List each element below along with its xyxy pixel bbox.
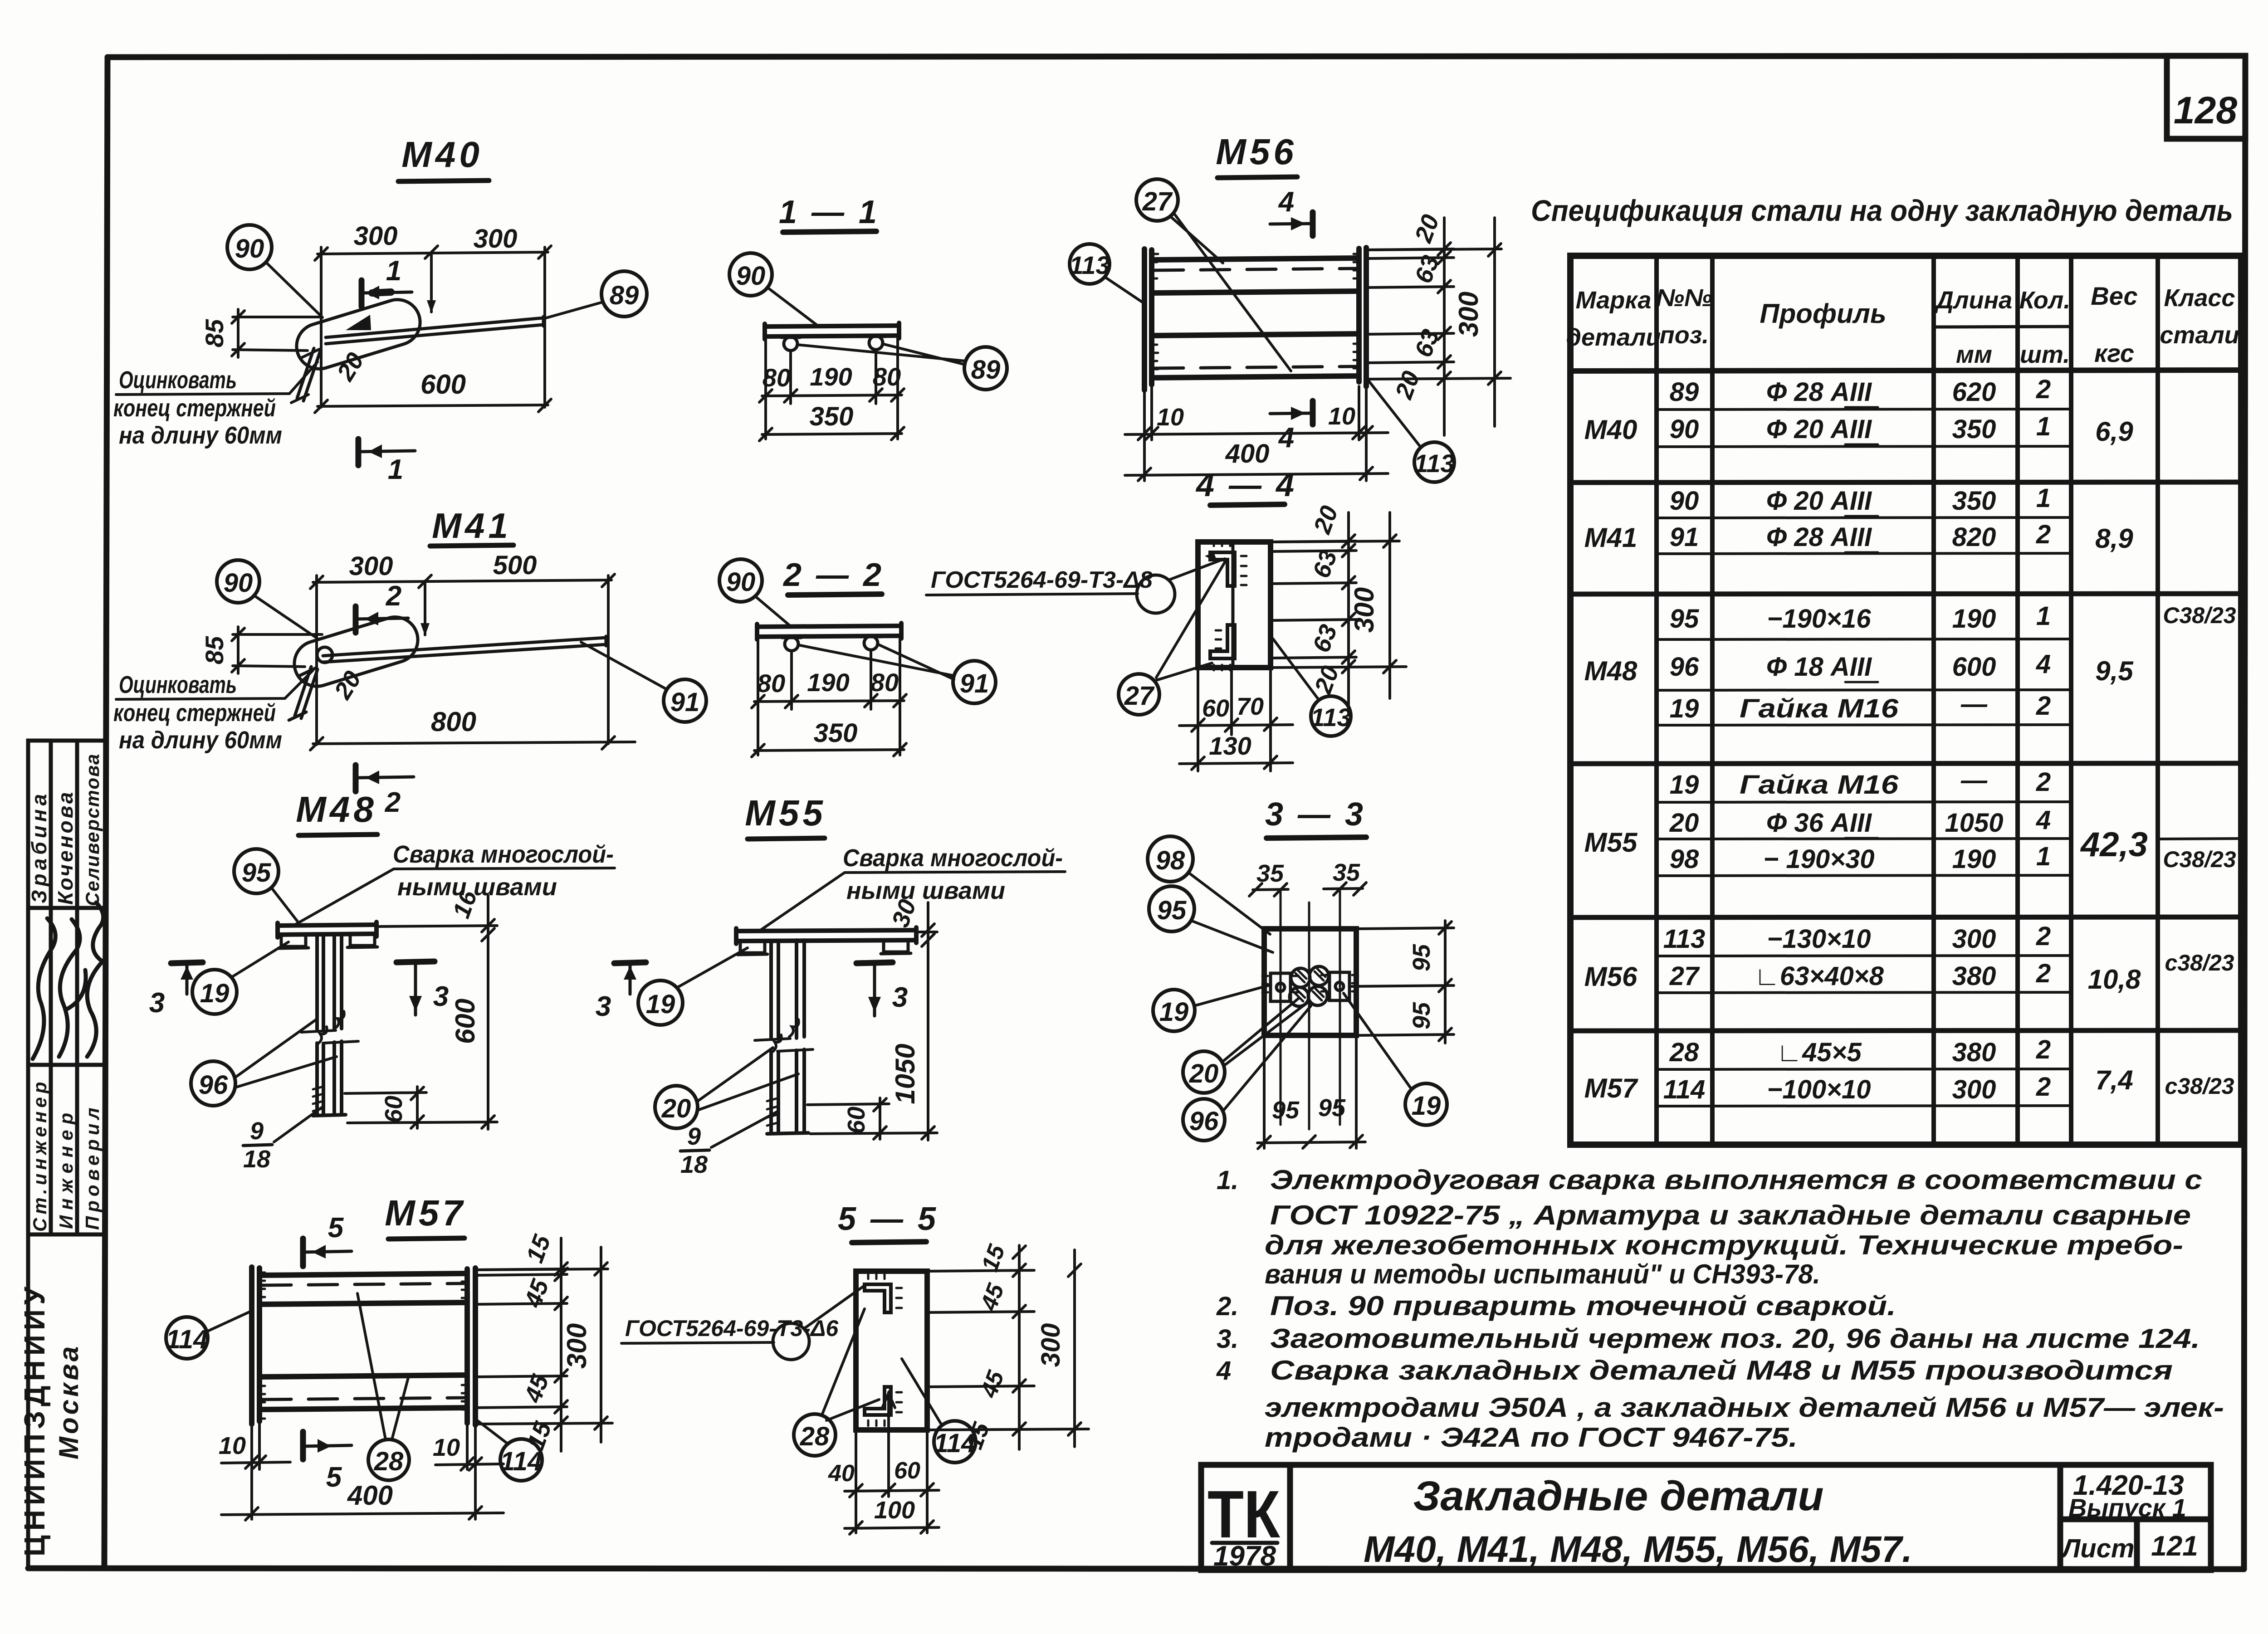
svg-text:Сварка многослой-: Сварка многослой- <box>843 844 1063 872</box>
svg-text:Ф 28 АIII: Ф 28 АIII <box>1766 377 1872 407</box>
svg-text:90: 90 <box>726 567 756 597</box>
svg-text:89: 89 <box>971 355 1001 385</box>
M56 bottom dim 400 <box>1125 467 1388 481</box>
M57 dim 300 <box>475 1247 608 1442</box>
section 5-5 GOST underline <box>621 1342 774 1343</box>
svg-text:Поз. 90 приварить точечной: Поз. 90 приварить точечной сваркой. <box>1270 1291 1896 1321</box>
section 1-1 callout circle 90 <box>729 253 772 296</box>
M57 callout circle 114 left <box>166 1317 208 1359</box>
svg-text:М41: М41 <box>1584 522 1637 553</box>
stamp signature 3 <box>87 902 103 1057</box>
M56 leader 113 right <box>1368 380 1421 447</box>
svg-text:85: 85 <box>200 636 229 664</box>
svg-text:1.: 1. <box>1217 1166 1238 1195</box>
svg-text:Оцинковать: Оцинковать <box>119 366 237 394</box>
svg-text:380: 380 <box>1952 961 1996 991</box>
section 5-5 callout circle 28 <box>794 1414 836 1456</box>
svg-text:27: 27 <box>1669 961 1700 991</box>
svg-text:95: 95 <box>1670 604 1699 634</box>
M40 section mark 1 bottom <box>358 439 415 465</box>
svg-text:Ф 20 АIII: Ф 20 АIII <box>1766 486 1872 516</box>
svg-text:Москва: Москва <box>54 1344 84 1459</box>
svg-text:М56: М56 <box>1584 961 1637 992</box>
section 4-4 plate outline <box>1198 542 1271 668</box>
M57 callout circle 114 right <box>500 1439 542 1481</box>
section 2-2 dim 80 190 80 <box>752 639 906 755</box>
section 1-1 callout circle 89 <box>964 347 1007 390</box>
section 4-4 callout circle 113 <box>1310 696 1351 736</box>
M57 right dim ladder 15 45 45 15 <box>475 1238 612 1451</box>
svg-text:2: 2 <box>2036 959 2051 988</box>
svg-text:Длина: Длина <box>1934 287 2012 314</box>
section 2-2 underline <box>788 594 882 595</box>
M55 dim 60 <box>807 1098 937 1139</box>
table row M48-96 <box>1670 649 2051 682</box>
svg-text:М55: М55 <box>1584 827 1638 858</box>
svg-text:М41: М41 <box>432 506 512 546</box>
svg-text:300: 300 <box>562 1323 592 1369</box>
svg-text:98: 98 <box>1670 844 1699 874</box>
svg-text:5: 5 <box>326 1462 342 1493</box>
svg-text:600: 600 <box>450 999 480 1044</box>
svg-text:Закладные детали: Закладные детали <box>1413 1473 1824 1519</box>
svg-text:М57: М57 <box>385 1193 466 1233</box>
M55 bolt thread ticks <box>767 1098 777 1126</box>
M48 dim 600 <box>482 896 494 1129</box>
svg-text:42,3: 42,3 <box>2080 825 2148 864</box>
M57 section mark 5 top <box>303 1239 352 1266</box>
M40 title underline <box>398 180 489 181</box>
svg-text:35: 35 <box>1333 859 1360 886</box>
section 3-3 washer left <box>1262 973 1299 1001</box>
M55 dim 30 <box>916 924 937 946</box>
M55 section mark 3 left <box>614 962 646 994</box>
M57 section mark 5 bottom <box>303 1432 352 1459</box>
svg-text:96: 96 <box>1189 1107 1219 1136</box>
svg-text:300: 300 <box>354 221 398 251</box>
M41 callout circle 90 <box>217 560 259 603</box>
svg-text:600: 600 <box>420 369 466 400</box>
M48 dim 16 <box>376 919 497 941</box>
spec table row lines <box>1657 409 2241 1106</box>
M56 section mark 4 bottom <box>1270 401 1313 424</box>
M57 leader 114 left <box>207 1311 252 1332</box>
section 1-1 bolt washers <box>781 336 885 351</box>
svg-text:кгс: кгс <box>2094 339 2134 367</box>
svg-text:20: 20 <box>1669 808 1699 838</box>
section 3-3 leader 96 <box>1223 1006 1311 1111</box>
svg-text:−100×10: −100×10 <box>1767 1075 1871 1104</box>
svg-text:1: 1 <box>386 255 401 287</box>
section 3-3 callout circle 19 right <box>1405 1083 1447 1125</box>
svg-text:7,4: 7,4 <box>2095 1065 2133 1095</box>
M41 callout circle 91 <box>664 679 706 722</box>
section 4-4 underline <box>1210 504 1285 505</box>
svg-text:300: 300 <box>474 224 518 254</box>
svg-text:90: 90 <box>1670 415 1699 444</box>
svg-text:96: 96 <box>199 1070 228 1100</box>
M41 note underline <box>116 670 313 699</box>
svg-text:М57: М57 <box>1584 1073 1638 1103</box>
M48 leader 95 <box>271 888 299 924</box>
svg-text:91: 91 <box>670 688 700 717</box>
svg-text:113: 113 <box>1310 703 1351 732</box>
svg-text:35: 35 <box>1256 860 1284 887</box>
M57 callout circle 28 <box>368 1439 409 1480</box>
section 3-3 callout circle 96 <box>1183 1099 1225 1141</box>
svg-text:3: 3 <box>892 982 908 1013</box>
svg-text:190: 190 <box>1952 844 1996 874</box>
svg-text:113: 113 <box>1069 251 1110 279</box>
M48 leader 19 <box>231 942 288 977</box>
svg-text:190: 190 <box>1952 604 1996 634</box>
svg-text:вания и методы испытаний": вания и методы испытаний" и СН393-78. <box>1265 1259 1820 1289</box>
svg-text:—: — <box>1960 689 1988 719</box>
svg-text:Ст.инженер: Ст.инженер <box>29 1078 50 1232</box>
svg-text:90: 90 <box>1670 486 1699 516</box>
svg-text:300: 300 <box>1952 1075 1996 1104</box>
M57 bottom dim 400 <box>221 1507 503 1520</box>
M48 anchor bolts 96 <box>313 934 346 1116</box>
M48 callout circle 95 <box>234 849 279 893</box>
M48 bolt break marks <box>301 1011 358 1044</box>
svg-text:89: 89 <box>610 281 639 310</box>
svg-text:М55: М55 <box>745 793 826 833</box>
M40 weld triangle <box>346 315 371 330</box>
svg-text:91: 91 <box>1670 522 1699 552</box>
M55 weld note leader <box>761 872 1065 930</box>
svg-text:19: 19 <box>1670 770 1699 800</box>
section 5-5 weld ref circle <box>773 1323 809 1360</box>
M48 weld note leader <box>296 868 615 924</box>
section 3-3 underline <box>1266 837 1366 838</box>
section 3-3 leader 19 left <box>1194 985 1270 1006</box>
M41 section mark 2 top <box>356 606 408 633</box>
svg-text:2: 2 <box>2036 1035 2051 1064</box>
M56 left end plate 113 <box>1144 249 1158 390</box>
M55 nut 19 left <box>738 941 767 955</box>
svg-text:2 — 2: 2 — 2 <box>782 557 884 593</box>
section 3-3 bottom dims 95 95 <box>1257 1035 1365 1149</box>
svg-text:60: 60 <box>894 1458 920 1484</box>
table row M56-27 <box>1669 959 2051 991</box>
svg-text:6,9: 6,9 <box>2095 416 2133 447</box>
section 3-3 callout circle 95 <box>1149 886 1194 932</box>
svg-text:40: 40 <box>828 1460 855 1487</box>
svg-text:Ф 18 АIII: Ф 18 АIII <box>1766 652 1872 682</box>
M48 plate 95 <box>278 922 376 937</box>
spec table section lines <box>1570 482 2241 1031</box>
table row M55-20 <box>1669 805 2051 838</box>
svg-text:Заготовительный чертеж поз.: Заготовительный чертеж поз. 20, 96 даны … <box>1270 1323 2200 1354</box>
section 3-3 washer right <box>1321 972 1358 1000</box>
svg-text:60: 60 <box>1202 695 1229 722</box>
svg-text:− 190×30: − 190×30 <box>1763 844 1874 874</box>
svg-text:1: 1 <box>2036 412 2051 441</box>
spec table column lines <box>1657 256 2158 1145</box>
svg-text:9,5: 9,5 <box>2095 656 2134 686</box>
svg-text:114: 114 <box>500 1447 542 1476</box>
section 1-1 leaders 89 <box>797 344 965 365</box>
M55 section mark 3 mid <box>856 962 893 1016</box>
svg-text:М40: М40 <box>1584 415 1637 445</box>
M56 bottom dims 10 10 <box>1125 385 1388 481</box>
svg-text:1: 1 <box>2036 483 2051 513</box>
M56 leaders 27 <box>1170 215 1291 371</box>
table row M48-19 <box>1670 689 2051 723</box>
M41 title underline <box>430 545 513 546</box>
M48 bolt thread ticks <box>313 1087 323 1111</box>
svg-text:91: 91 <box>960 669 989 698</box>
svg-text:∟63×40×8: ∟63×40×8 <box>1754 961 1884 991</box>
table row M57-114 <box>1663 1072 2051 1104</box>
M48 title underline <box>298 834 377 835</box>
svg-text:−130×10: −130×10 <box>1767 924 1871 954</box>
svg-text:600: 600 <box>1952 652 1996 682</box>
M48 callout circle 96 <box>191 1061 235 1106</box>
svg-text:350: 350 <box>814 718 858 748</box>
section 2-2 dim 350 <box>752 743 906 757</box>
svg-text:электродами Э50А , а закла: электродами Э50А , а закладных деталей М… <box>1265 1392 2224 1423</box>
section 4-4 weld leader <box>1168 559 1225 580</box>
svg-text:190: 190 <box>810 362 852 391</box>
svg-text:ГОСТ5264-69-Т3-Δ6: ГОСТ5264-69-Т3-Δ6 <box>625 1316 839 1341</box>
M40 leader 90 <box>266 262 323 317</box>
spec table header Kol sht <box>2019 287 2071 368</box>
svg-text:поз.: поз. <box>1660 322 1709 349</box>
M48 dim 60 <box>345 1087 497 1128</box>
svg-text:2: 2 <box>2036 375 2051 404</box>
M40 section mark 1 top <box>362 280 412 307</box>
svg-text:350: 350 <box>810 402 854 431</box>
svg-text:Гайка М16: Гайка М16 <box>1740 694 1899 723</box>
svg-text:для железобетонных конструкц: для железобетонных конструкций. Техничес… <box>1265 1230 2183 1260</box>
svg-text:95: 95 <box>242 858 271 888</box>
title block outline <box>1201 1465 2211 1570</box>
section 5-5 leaders 28 <box>822 1309 879 1420</box>
svg-text:стали: стали <box>2160 322 2239 349</box>
svg-text:19: 19 <box>646 990 675 1019</box>
svg-text:Лист: Лист <box>2060 1534 2134 1563</box>
section 3-3 callout circle 19 left <box>1153 990 1195 1031</box>
svg-text:27: 27 <box>1142 187 1173 216</box>
section 4-4 bottom angle 27 <box>1210 625 1235 670</box>
M55 callout circle 20 <box>655 1086 698 1128</box>
M41 section mark 2 bottom <box>356 765 414 791</box>
svg-text:500: 500 <box>493 551 537 580</box>
svg-text:8,9: 8,9 <box>2095 523 2133 554</box>
svg-text:190: 190 <box>807 668 849 697</box>
M41 anchor plate (capsule) <box>288 611 423 692</box>
svg-text:9: 9 <box>687 1123 701 1150</box>
svg-text:114: 114 <box>166 1325 208 1354</box>
table row M40-90 <box>1670 412 2051 444</box>
section 2-2 plate <box>757 623 901 639</box>
M48 section mark 3 mid <box>396 961 435 1015</box>
section 4-4 weld ref circle <box>1137 575 1175 613</box>
M57 angle beam lines <box>259 1273 467 1410</box>
section 4-4 right dim ladder 20 63 63 20 <box>1271 512 1406 707</box>
svg-text:Ф 36 АIII: Ф 36 АIII <box>1766 808 1872 838</box>
section 5-5 dim 100 <box>845 1521 939 1534</box>
svg-text:28: 28 <box>374 1447 404 1476</box>
table row M40-89 <box>1670 375 2051 407</box>
section 4-4 dim 300 <box>1271 512 1399 698</box>
svg-text:1050: 1050 <box>890 1044 920 1104</box>
section 2-2 leaders 91 <box>798 644 954 679</box>
svg-text:128: 128 <box>2174 89 2237 132</box>
M57 right end plate 114 <box>462 1268 475 1425</box>
section 3-3 leaders 20 <box>1222 999 1309 1066</box>
svg-text:С38/23: С38/23 <box>2163 847 2236 872</box>
svg-text:10: 10 <box>219 1432 246 1459</box>
svg-text:9: 9 <box>250 1117 264 1145</box>
svg-text:95: 95 <box>1157 896 1187 925</box>
stamp signature 2 <box>59 919 86 1057</box>
svg-text:10: 10 <box>1328 403 1355 430</box>
svg-text:Селиверстова: Селиверстова <box>82 753 103 906</box>
section 4-4 GOST underline <box>926 594 1138 595</box>
svg-text:детали: детали <box>1566 324 1661 351</box>
svg-text:2: 2 <box>2036 1072 2051 1102</box>
svg-text:4: 4 <box>2036 649 2051 679</box>
svg-text:28: 28 <box>1669 1038 1699 1067</box>
svg-text:60: 60 <box>843 1107 870 1134</box>
M40 callout circle 90 <box>227 225 272 269</box>
section 3-3 right dims 95 95 <box>1349 921 1454 1043</box>
svg-text:114: 114 <box>1663 1075 1705 1104</box>
M48 nut 19 right <box>347 934 377 947</box>
M40 anchor rod 89 <box>326 317 543 344</box>
svg-text:121: 121 <box>2151 1531 2198 1562</box>
svg-text:3: 3 <box>596 991 611 1022</box>
svg-text:60: 60 <box>380 1096 407 1123</box>
svg-text:80: 80 <box>870 668 899 697</box>
M55 fraction leader <box>711 1112 777 1147</box>
stamp signature 1 <box>33 918 55 1059</box>
svg-text:конец стержней: конец стержней <box>113 395 276 422</box>
svg-text:1: 1 <box>2036 842 2051 871</box>
section 3-3 bar ends hatched <box>1290 966 1329 1006</box>
svg-text:96: 96 <box>1670 652 1699 682</box>
M56 angle beam lines <box>1152 258 1359 378</box>
svg-text:400: 400 <box>1225 439 1270 468</box>
svg-text:3: 3 <box>149 987 165 1019</box>
section 1-1 dim 350 <box>759 427 904 441</box>
svg-text:Кол.: Кол. <box>2019 287 2071 314</box>
svg-text:1: 1 <box>2036 601 2051 631</box>
svg-text:Класс: Класс <box>2164 284 2235 312</box>
svg-text:ными швами: ными швами <box>846 877 1005 904</box>
svg-text:620: 620 <box>1952 377 1996 407</box>
svg-text:Гайка М16: Гайка М16 <box>1740 770 1899 800</box>
svg-text:с38/23: с38/23 <box>2165 1073 2234 1099</box>
svg-text:95: 95 <box>1408 1002 1435 1029</box>
svg-text:2.: 2. <box>1216 1292 1238 1321</box>
svg-text:800: 800 <box>431 707 476 737</box>
M57 dashed toe lines <box>262 1283 464 1400</box>
M40 note underline <box>116 362 318 395</box>
svg-text:18: 18 <box>680 1151 708 1178</box>
M41 anchor rod 91 <box>323 636 606 662</box>
M40 anchor plate (capsule) <box>291 294 425 374</box>
svg-text:95: 95 <box>1272 1097 1300 1124</box>
svg-text:шт.: шт. <box>2020 341 2070 368</box>
svg-text:2: 2 <box>386 580 401 612</box>
svg-text:Спецификация стали на одну зак: Спецификация стали на одну закладную дет… <box>1531 194 2233 227</box>
svg-text:80: 80 <box>873 362 901 391</box>
section 5-5 top angle 28 <box>865 1273 902 1312</box>
svg-text:Сварка многослой-: Сварка многослой- <box>393 841 614 868</box>
M41 weld dot <box>317 647 332 663</box>
M48 fraction leader <box>274 1107 323 1142</box>
svg-text:2: 2 <box>2036 767 2051 797</box>
svg-text:10,8: 10,8 <box>2088 964 2141 995</box>
section 3-3 bolt axis lines <box>1281 889 1340 1129</box>
M56 section mark 4 top <box>1270 212 1313 236</box>
M48 section mark 3 left <box>171 962 203 994</box>
svg-text:Профиль: Профиль <box>1760 298 1886 329</box>
spec table outer border <box>1570 256 2241 1145</box>
spec table header sub line <box>1934 327 2071 327</box>
section 5-5 weld leader <box>804 1286 864 1329</box>
svg-text:М40, М41, М48, М55, М56, М57.: М40, М41, М48, М55, М56, М57. <box>1364 1529 1912 1570</box>
M55 title underline <box>748 838 825 839</box>
M55 leader 19 <box>677 948 748 988</box>
spec table header bottom line <box>1570 370 2241 371</box>
svg-text:2: 2 <box>2036 922 2051 951</box>
svg-text:Вес: Вес <box>2091 282 2137 310</box>
svg-text:300: 300 <box>349 551 393 581</box>
svg-text:Зрабина: Зрабина <box>27 790 51 903</box>
svg-text:380: 380 <box>1952 1038 1996 1067</box>
section 1-1 leader 90 <box>767 288 816 325</box>
section 5-5 dim 300 <box>1068 1250 1081 1447</box>
M40 leader 89 <box>546 302 603 318</box>
section 1-1 plate <box>765 323 899 339</box>
svg-text:95: 95 <box>1408 944 1435 971</box>
svg-text:19: 19 <box>1159 997 1189 1027</box>
M56 callout circle 113 right <box>1414 442 1454 482</box>
svg-text:70: 70 <box>1237 693 1264 720</box>
svg-text:ГОСТ5264-69-Т3-Δ8: ГОСТ5264-69-Т3-Δ8 <box>931 567 1153 593</box>
svg-text:19: 19 <box>1670 694 1699 723</box>
M48 callout circle 19 <box>192 970 237 1014</box>
svg-text:∟45×5: ∟45×5 <box>1776 1038 1862 1067</box>
svg-text:98: 98 <box>1156 846 1185 875</box>
svg-text:С38/23: С38/23 <box>2163 603 2236 628</box>
M57 title underline <box>388 1238 464 1239</box>
svg-text:на длину 60мм: на длину 60мм <box>119 727 282 754</box>
svg-text:19: 19 <box>200 979 230 1008</box>
svg-text:114: 114 <box>934 1429 976 1458</box>
svg-text:28: 28 <box>800 1422 830 1451</box>
table row M56-113 <box>1663 922 2051 954</box>
svg-text:1 — 1: 1 — 1 <box>779 194 880 230</box>
svg-text:89: 89 <box>1670 377 1699 407</box>
section 1-1 dim 80 190 80 <box>759 338 904 439</box>
svg-text:Ф 20 АIII: Ф 20 АIII <box>1766 415 1872 444</box>
svg-text:820: 820 <box>1952 522 1996 552</box>
spec table header Dlina mm <box>1934 287 2012 368</box>
svg-text:М40: М40 <box>401 134 483 175</box>
M41 leader 90 <box>254 595 318 639</box>
table row M41-90 <box>1670 483 2051 516</box>
section 2-2 leader 90 <box>755 596 790 626</box>
section 3-3 leader 95 <box>1191 921 1273 952</box>
section 5-5 bottom dims 40 60 <box>845 1430 939 1533</box>
M41 bottom dimension 800 <box>310 737 635 750</box>
